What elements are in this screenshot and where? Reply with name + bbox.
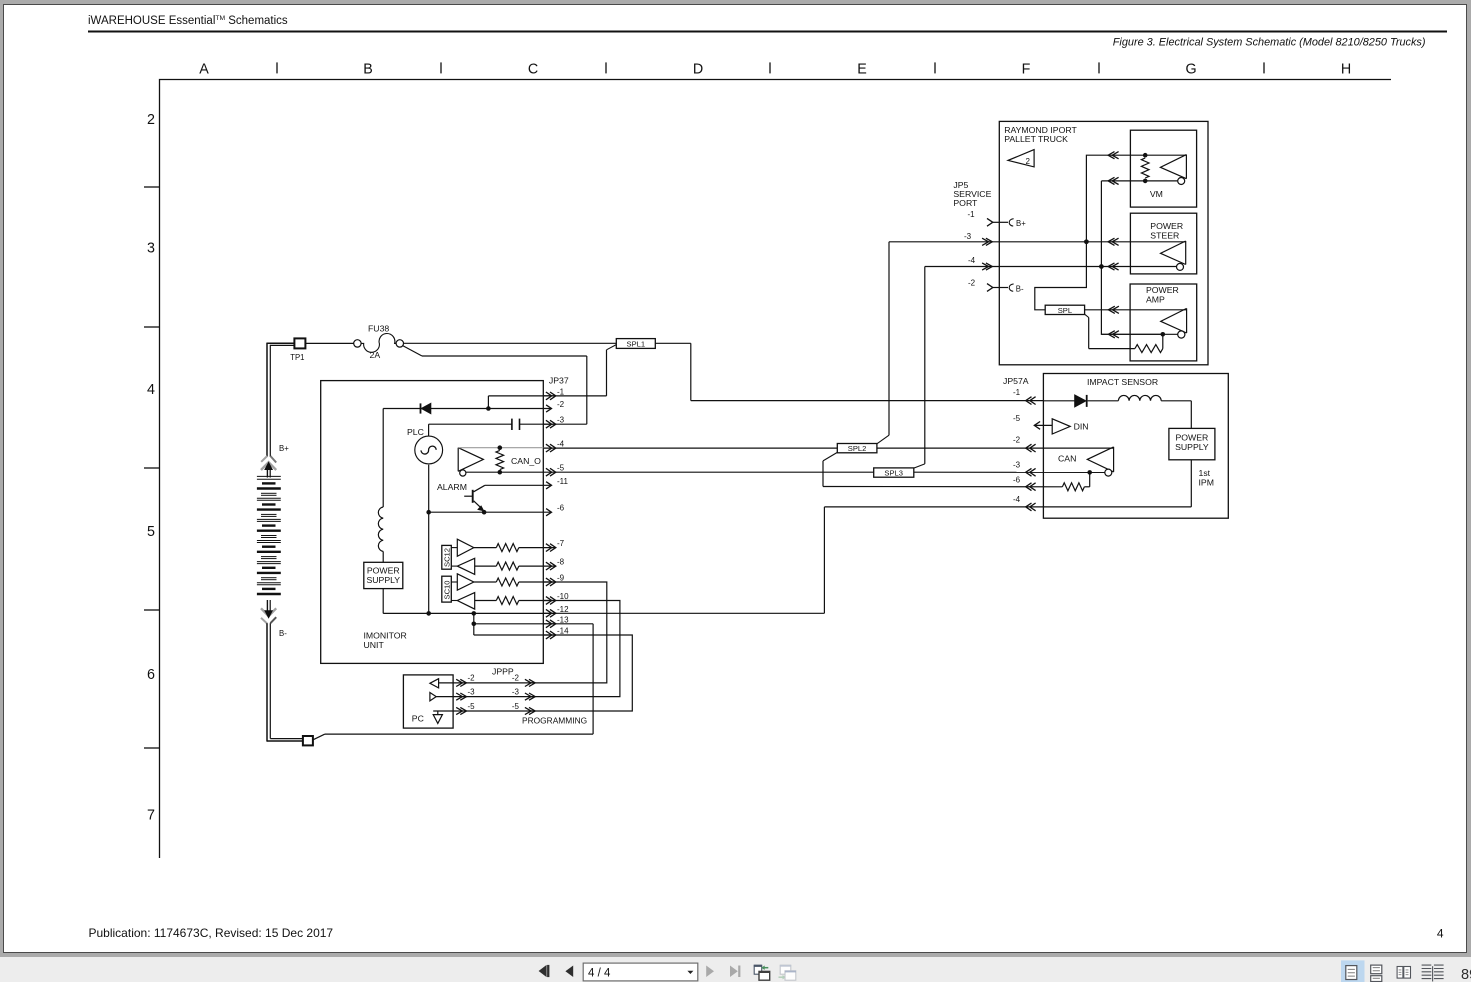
svg-text:-4: -4	[557, 440, 565, 449]
wire JP37-9 to JPPP-2	[531, 582, 607, 683]
svg-text:-3: -3	[512, 687, 520, 696]
connector JP37 pin chevrons	[546, 392, 556, 639]
svg-text:-14: -14	[557, 627, 569, 636]
PC RX buffer	[430, 679, 439, 688]
wire - double line from TP1 down-left (B+ feed)	[267, 343, 294, 457]
wire TP2 to B- rail	[313, 624, 593, 740]
test point TP1	[290, 338, 305, 362]
CAN_O transceiver	[458, 448, 483, 476]
motor unit box VM	[1130, 130, 1196, 207]
viewer toolbar background	[0, 957, 1471, 982]
svg-text:-4: -4	[968, 256, 976, 265]
svg-text:PORT: PORT	[953, 198, 978, 208]
svg-text:B-: B-	[279, 629, 287, 638]
svg-text:-5: -5	[557, 464, 565, 473]
CAN buffer in IMPACT SENSOR	[1058, 447, 1114, 476]
JP57A pin -5 / DIN buffer	[1013, 414, 1089, 434]
svg-text:IMONITOR: IMONITOR	[364, 631, 407, 641]
wire JPPP-5	[433, 707, 535, 714]
svg-text:-13: -13	[557, 615, 569, 624]
JP57A pin -2 wire (CAN)	[877, 436, 1114, 453]
buffer triangle 1 and resistor to JP37-7	[451, 539, 555, 556]
JP5 pin -3	[964, 232, 992, 245]
svg-text:iWAREHOUSE EssentialTM Schemat: iWAREHOUSE EssentialTM Schematics	[88, 15, 288, 27]
svg-text:Publication: 1174673C, Revised: Publication: 1174673C, Revised: 15 Dec 2…	[89, 926, 334, 940]
grid column tick marks	[277, 62, 1264, 73]
wire CAN high internal (gray)	[458, 445, 543, 450]
svg-text:6: 6	[147, 667, 155, 683]
buffer SC10	[442, 576, 452, 602]
svg-text:B: B	[363, 61, 373, 77]
svg-text:SPL1: SPL1	[627, 339, 646, 348]
connector JP57A label	[1003, 376, 1029, 386]
svg-text:3: 3	[147, 241, 155, 257]
svg-text:-5: -5	[1013, 414, 1021, 423]
svg-text:JP57A: JP57A	[1003, 376, 1029, 386]
svg-text:-10: -10	[557, 592, 569, 601]
grid row numbers 2-7	[147, 112, 155, 823]
toolbar single-page layout button (active)	[1341, 960, 1365, 982]
wire JP37-2 internal	[488, 408, 551, 410]
resistor in VM	[1141, 153, 1149, 183]
fuse FU38 2A	[354, 324, 404, 361]
svg-text:-1: -1	[1013, 388, 1021, 397]
svg-text:SC10: SC10	[443, 581, 452, 600]
svg-text:STEER: STEER	[1150, 231, 1179, 241]
JP57A pin -6 wire and terminator resistor	[823, 472, 1090, 490]
svg-text:SC12: SC12	[443, 548, 452, 567]
footer page number 4	[1437, 927, 1444, 941]
wire VM feed 1 (vertical bus A)	[1035, 152, 1187, 310]
svg-text:B-: B-	[1016, 284, 1024, 293]
diode in IMPACT SENSOR	[1043, 395, 1118, 407]
svg-text:POWER: POWER	[1150, 221, 1183, 231]
svg-text:VM: VM	[1150, 189, 1163, 199]
svg-text:A: A	[199, 61, 209, 77]
svg-text:PC: PC	[412, 714, 424, 724]
page header title	[88, 15, 288, 27]
connector JP5 SERVICE PORT label	[953, 180, 991, 208]
node B+ label	[279, 444, 289, 453]
wires JP37-13 and JP37-14 internal	[472, 613, 556, 635]
svg-text:-4: -4	[1013, 495, 1021, 504]
svg-text:-6: -6	[557, 504, 565, 513]
toolbar two-page layout button	[1397, 967, 1410, 979]
svg-text:UNIT: UNIT	[364, 640, 385, 650]
svg-text:4: 4	[147, 382, 155, 398]
toolbar last-page button (disabled)	[730, 966, 740, 978]
wire JP37-13 external	[544, 623, 594, 625]
splice SPL2	[837, 444, 877, 454]
B- rail in IMONITOR	[383, 611, 555, 616]
svg-text:-1: -1	[557, 387, 565, 396]
header rule	[88, 31, 1447, 33]
figure caption	[1113, 36, 1426, 48]
svg-text:CAN_O: CAN_O	[511, 456, 541, 466]
connector JP37 pin numbers	[557, 387, 569, 635]
wire fuse to SPL1	[404, 342, 617, 344]
svg-text:4: 4	[1437, 927, 1444, 941]
toolbar previous-view icon	[754, 965, 770, 980]
toolbar zoom percentage 89	[1461, 967, 1471, 982]
svg-text:-2: -2	[512, 674, 520, 683]
svg-text:JP37: JP37	[549, 376, 569, 386]
wire JP5-4 to POWER STEER	[992, 263, 1176, 270]
toolbar previous-page button	[565, 966, 573, 978]
svg-text:4 / 4: 4 / 4	[588, 967, 611, 979]
PLC oscillator	[407, 427, 443, 464]
svg-text:-7: -7	[557, 539, 565, 548]
svg-text:C: C	[528, 61, 538, 77]
PC TX buffer	[430, 693, 436, 701]
label 1st IPM	[1199, 468, 1214, 488]
svg-text:PROGRAMMING: PROGRAMMING	[522, 715, 587, 725]
svg-text:-12: -12	[557, 605, 569, 614]
motor unit box POWER STEER	[1130, 213, 1196, 274]
svg-text:B+: B+	[1016, 219, 1026, 228]
test point TP2	[303, 736, 313, 745]
svg-text:-5: -5	[468, 702, 476, 711]
svg-text:CAN: CAN	[1058, 454, 1076, 464]
resistor in POWER AMP	[1085, 314, 1163, 352]
svg-text:Figure 3. Electrical System S: Figure 3. Electrical System Schematic (M…	[1113, 36, 1426, 48]
reference triangle 2	[1008, 150, 1034, 167]
svg-text:SPL: SPL	[1058, 306, 1072, 315]
svg-text:POWER: POWER	[367, 566, 400, 576]
power supply box in IMONITOR	[364, 562, 403, 613]
motor symbol in VM	[1160, 155, 1186, 185]
svg-text:-2: -2	[557, 400, 565, 409]
svg-text:SUPPLY: SUPPLY	[366, 575, 400, 585]
svg-text:JPPP: JPPP	[492, 667, 514, 677]
splice SPL1	[607, 339, 656, 350]
inductor in IMPACT SENSOR	[1118, 395, 1191, 428]
wire SPL1 branch to JP37-1	[544, 350, 607, 396]
motor symbol in POWER STEER	[1161, 241, 1186, 270]
B- arrow and connector chevrons	[261, 600, 276, 624]
svg-text:POWER: POWER	[1175, 433, 1208, 443]
buffer SC12	[442, 545, 452, 569]
svg-text:SPL2: SPL2	[848, 444, 867, 453]
svg-text:-5: -5	[512, 702, 520, 711]
wire JPPP-3	[436, 693, 535, 700]
svg-text:-3: -3	[557, 416, 565, 425]
transistor ALARM	[437, 482, 551, 511]
svg-text:E: E	[857, 61, 867, 77]
svg-text:7: 7	[147, 807, 155, 823]
footer publication text	[89, 926, 334, 940]
buffer triangle 3 and resistor to JP37-9	[451, 574, 555, 590]
connector JPPP labels	[468, 667, 520, 711]
svg-text:FU38: FU38	[368, 324, 389, 334]
svg-text:B+: B+	[279, 444, 289, 453]
toolbar next-view icon (disabled)	[779, 965, 797, 980]
svg-text:-2: -2	[468, 674, 476, 683]
wire JP37-5 internal	[466, 471, 543, 473]
buffer triangle 2 and resistor to JP37-8	[451, 558, 555, 574]
wire SPL to POWER AMP	[1085, 306, 1187, 313]
svg-text:-3: -3	[964, 232, 972, 241]
buffer triangle 4 and resistor to JP37-10	[451, 593, 555, 610]
svg-text:-1: -1	[968, 210, 976, 219]
inductor to power supply	[378, 409, 383, 563]
wire VM feed 2 (vertical bus B)	[1099, 177, 1178, 334]
svg-text:-6: -6	[1013, 476, 1021, 485]
wire JP37-4 to SPL2 (CAN)	[544, 447, 838, 449]
JP57A pin -1	[1013, 388, 1036, 405]
svg-text:2A: 2A	[370, 350, 381, 360]
motor unit box POWER AMP	[1130, 284, 1197, 361]
JP57A pin -4 wire	[824, 460, 1191, 511]
svg-text:-8: -8	[557, 558, 565, 567]
splice SPL	[1045, 305, 1084, 315]
svg-text:SPL3: SPL3	[884, 468, 903, 477]
wire JP5-3 to POWER STEER	[992, 238, 1185, 245]
wire fuse branch to JP37-3	[403, 346, 587, 425]
svg-text:POWER: POWER	[1146, 285, 1179, 295]
svg-text:F: F	[1022, 61, 1031, 77]
wire - double line from B- to TP2	[267, 623, 303, 741]
schematic frame border (top + left)	[160, 80, 1392, 859]
svg-text:IPM: IPM	[1199, 478, 1214, 488]
module box RAYMOND IPORT PALLET TRUCK	[999, 121, 1208, 364]
svg-text:H: H	[1341, 61, 1351, 77]
wire SPL1 to JP57A-1	[655, 343, 1043, 400]
wire SPL2 branch to JP57A-6	[823, 452, 837, 486]
PC ground symbol	[433, 711, 442, 723]
resistor CAN_O	[496, 450, 541, 474]
wire JP37-6 internal	[429, 510, 551, 515]
wire JPPP-2	[439, 679, 536, 686]
wire TP1 to fuse	[306, 342, 354, 344]
toolbar next-page button (disabled)	[706, 966, 714, 978]
wire JP37-10 to JPPP-3	[531, 601, 620, 697]
JP57A pin -3 wire	[914, 461, 1105, 477]
svg-text:-3: -3	[1013, 461, 1021, 470]
wire JP37-14 to JPPP-5	[531, 635, 632, 711]
wire JP37-1 internal	[486, 396, 555, 411]
svg-text:-2: -2	[1013, 436, 1021, 445]
JP5 pin -2 (B-)	[968, 279, 1024, 294]
svg-text:-9: -9	[557, 574, 565, 583]
svg-text:2: 2	[1026, 157, 1031, 166]
label PROGRAMMING	[522, 715, 587, 725]
svg-text:SUPPLY: SUPPLY	[1175, 442, 1209, 452]
module box IMONITOR UNIT	[321, 381, 544, 664]
svg-text:IMPACT SENSOR: IMPACT SENSOR	[1087, 377, 1158, 387]
svg-text:-11: -11	[557, 477, 569, 486]
svg-text:PALLET TRUCK: PALLET TRUCK	[1004, 134, 1068, 144]
svg-text:-3: -3	[468, 687, 476, 696]
svg-text:AMP: AMP	[1146, 295, 1165, 305]
splice SPL3	[874, 468, 914, 478]
svg-text:D: D	[693, 61, 703, 77]
toolbar two-page continuous layout button	[1422, 964, 1444, 982]
svg-text:89: 89	[1461, 967, 1471, 982]
svg-text:2: 2	[147, 112, 155, 128]
svg-text:DIN: DIN	[1074, 422, 1089, 432]
capacitor to JP37-3	[429, 419, 556, 437]
svg-text:PLC: PLC	[407, 427, 424, 437]
wire SPL2 branch to JP5-3	[877, 242, 992, 444]
JP5 pin -1 (B+)	[968, 210, 1027, 228]
toolbar continuous layout button	[1371, 965, 1382, 981]
svg-text:1st: 1st	[1199, 468, 1211, 478]
JP5 pin -4	[968, 256, 992, 270]
toolbar first-page button	[539, 965, 550, 977]
connector JP37 label	[549, 376, 569, 386]
diode in IMONITOR	[383, 403, 488, 413]
module box IMPACT SENSOR	[1043, 374, 1228, 519]
battery BT1	[257, 476, 281, 594]
svg-text:TP1: TP1	[290, 353, 304, 362]
B+ connector chevrons and arrow	[261, 456, 276, 478]
svg-text:G: G	[1185, 61, 1196, 77]
node B- label	[279, 629, 287, 638]
toolbar page number combo box	[583, 963, 698, 981]
wire JP37-12 to JP57A-4 (B- rail)	[544, 507, 825, 613]
wire PLC to B- rail	[426, 465, 431, 616]
svg-text:-2: -2	[968, 279, 976, 288]
wire JP37-5 to SPL3	[544, 471, 874, 473]
grid column letters A-H	[199, 61, 1351, 77]
motor symbol in POWER AMP	[1161, 308, 1187, 338]
power supply box in IMPACT SENSOR	[1169, 428, 1215, 459]
svg-text:5: 5	[147, 524, 155, 540]
wire SPL3 branch to JP5-4	[914, 267, 993, 469]
grid row tick marks	[144, 187, 159, 748]
wire bus B to POWER AMP motor	[1101, 331, 1177, 338]
svg-text:ALARM: ALARM	[437, 482, 467, 492]
module box PC	[403, 675, 453, 728]
